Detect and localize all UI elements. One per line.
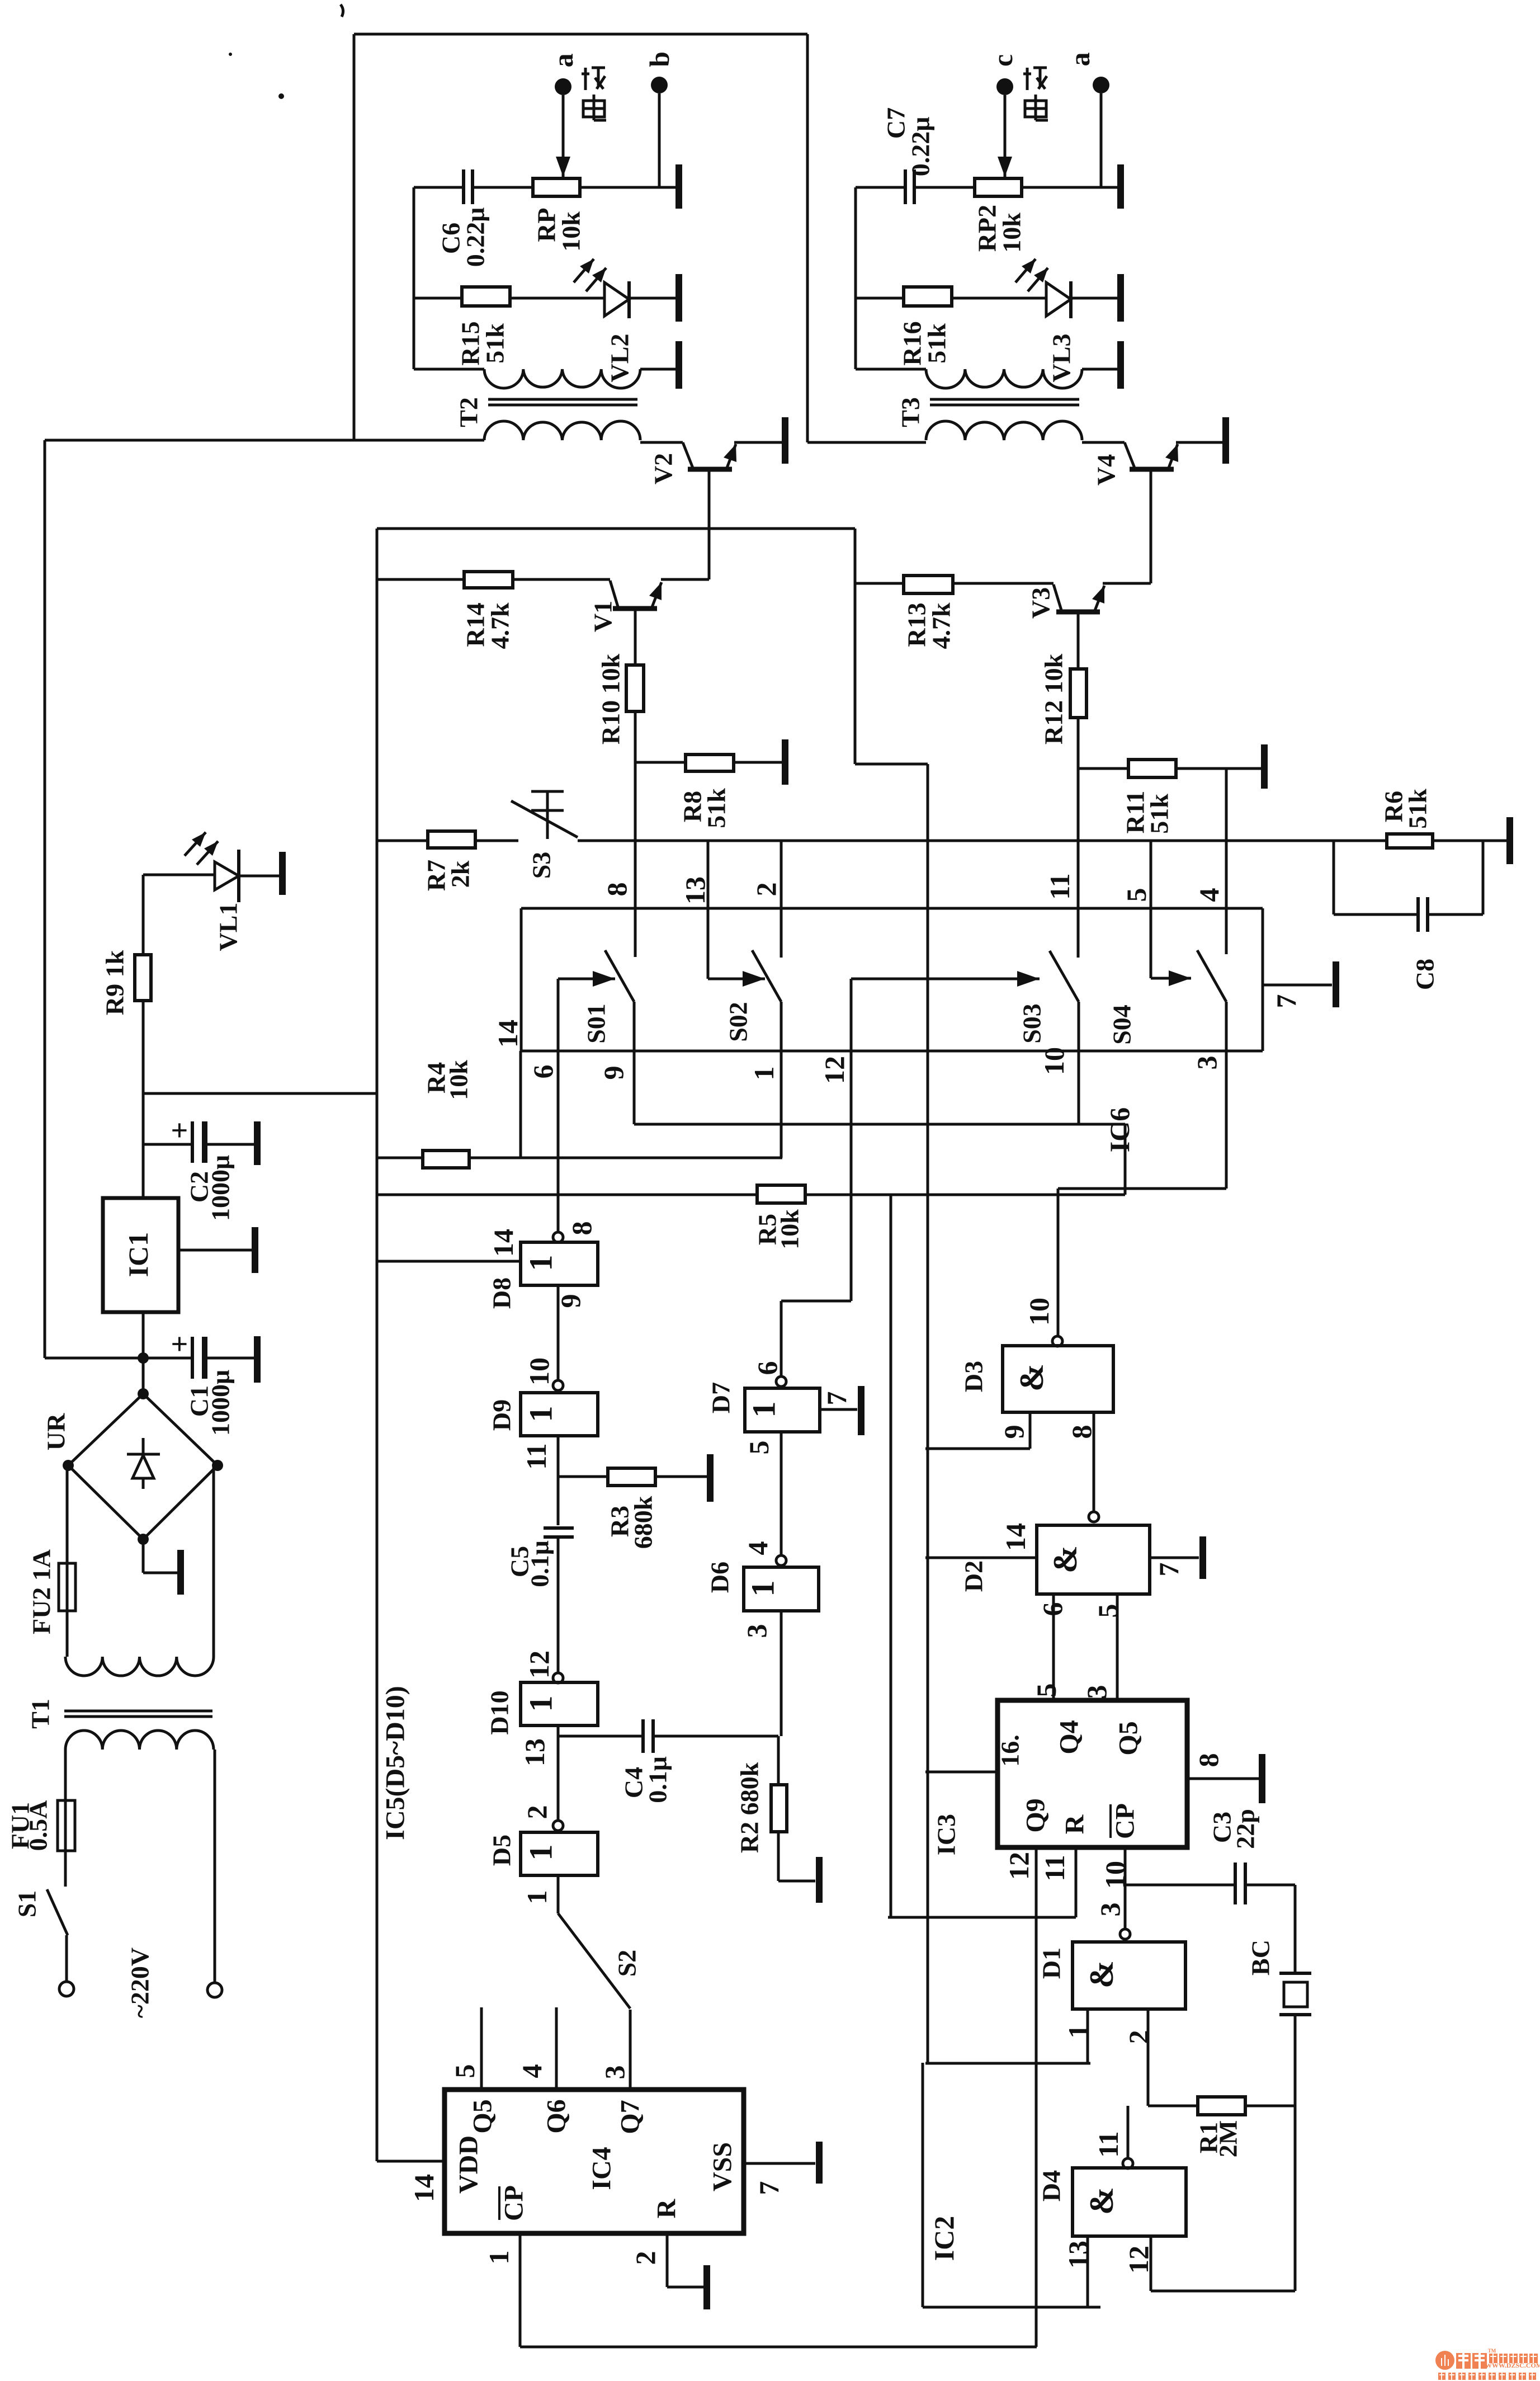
svg-text:4: 4 xyxy=(742,1541,773,1555)
svg-text:10k: 10k xyxy=(776,1209,804,1250)
svg-text:10k: 10k xyxy=(445,1060,473,1100)
svg-text:4: 4 xyxy=(516,2064,547,2078)
svg-text:5: 5 xyxy=(1092,1604,1123,1618)
svg-text:VL3: VL3 xyxy=(1047,334,1076,383)
svg-text:1: 1 xyxy=(523,1696,559,1712)
svg-text:6: 6 xyxy=(1037,1602,1068,1616)
svg-text:6: 6 xyxy=(752,1361,783,1375)
svg-text:7: 7 xyxy=(753,2181,785,2195)
svg-text:5: 5 xyxy=(1121,888,1152,902)
svg-text:Q9: Q9 xyxy=(1021,1798,1051,1832)
svg-text:VSS: VSS xyxy=(708,2142,738,2191)
svg-text:13: 13 xyxy=(1062,2241,1094,2269)
svg-text:8: 8 xyxy=(1193,1753,1224,1767)
svg-text:C8: C8 xyxy=(1411,959,1439,990)
svg-text:IC4: IC4 xyxy=(587,2147,617,2190)
svg-text:&: & xyxy=(1083,1960,1120,1988)
svg-text:11: 11 xyxy=(1039,1855,1070,1881)
svg-text:2: 2 xyxy=(1123,2030,1154,2044)
svg-text:~220V: ~220V xyxy=(126,1948,154,2018)
svg-text:&: & xyxy=(1047,1545,1084,1573)
svg-text:1: 1 xyxy=(745,1581,781,1597)
svg-text:IC5(D5~D10): IC5(D5~D10) xyxy=(381,1686,410,1840)
svg-text:2: 2 xyxy=(630,2251,661,2265)
svg-text:WWW.DZSC.COM: WWW.DZSC.COM xyxy=(1485,2361,1540,2369)
svg-text:14: 14 xyxy=(408,2174,440,2202)
svg-text:R9 1k: R9 1k xyxy=(101,950,129,1015)
svg-text:14: 14 xyxy=(488,1229,519,1257)
svg-text:13: 13 xyxy=(679,876,711,904)
svg-text:51k: 51k xyxy=(923,323,951,364)
svg-text:9: 9 xyxy=(598,1066,629,1080)
svg-text:5: 5 xyxy=(743,1441,774,1455)
svg-text:5: 5 xyxy=(1031,1684,1062,1698)
svg-text:S04: S04 xyxy=(1108,1005,1136,1045)
svg-text:R: R xyxy=(1060,1814,1090,1834)
svg-text:T3: T3 xyxy=(896,397,925,427)
svg-text:1: 1 xyxy=(523,1255,559,1271)
svg-text:3: 3 xyxy=(1081,1685,1112,1699)
svg-text:FU2 1A: FU2 1A xyxy=(27,1549,56,1634)
svg-text:D5: D5 xyxy=(488,1835,516,1866)
svg-text:IC6: IC6 xyxy=(1104,1107,1135,1153)
svg-text:10: 10 xyxy=(523,1357,555,1385)
svg-text:0.5A: 0.5A xyxy=(24,1800,53,1851)
svg-text:6: 6 xyxy=(527,1065,559,1079)
svg-text:5: 5 xyxy=(449,2064,480,2078)
svg-text:2M: 2M xyxy=(1214,2120,1243,2157)
svg-text:c: c xyxy=(987,54,1018,67)
svg-text:0.1μ: 0.1μ xyxy=(526,1540,554,1587)
svg-text:1: 1 xyxy=(748,1067,780,1081)
svg-text:Q5: Q5 xyxy=(1114,1721,1144,1755)
svg-text:V2: V2 xyxy=(649,453,678,484)
svg-text:CP: CP xyxy=(499,2185,529,2221)
svg-text:TM: TM xyxy=(1488,2348,1496,2354)
svg-text:12: 12 xyxy=(819,1056,850,1084)
svg-text:D9: D9 xyxy=(488,1399,516,1431)
svg-text:V3: V3 xyxy=(1027,587,1055,619)
svg-text:D3: D3 xyxy=(960,1361,988,1392)
svg-text:1: 1 xyxy=(1062,2025,1094,2039)
svg-text:9: 9 xyxy=(998,1425,1029,1439)
svg-text:BC: BC xyxy=(1246,1940,1275,1975)
svg-text:1: 1 xyxy=(483,2251,514,2265)
svg-text:D7: D7 xyxy=(707,1382,735,1413)
svg-text:CP: CP xyxy=(1111,1803,1140,1839)
svg-text:+: + xyxy=(163,1336,196,1353)
svg-text:T1: T1 xyxy=(26,1699,55,1729)
svg-text:14: 14 xyxy=(1000,1523,1031,1551)
svg-text:13: 13 xyxy=(519,1738,550,1766)
svg-text:4.7k: 4.7k xyxy=(486,602,514,649)
svg-text:T2: T2 xyxy=(455,397,483,427)
svg-text:0.1μ: 0.1μ xyxy=(644,1756,672,1803)
svg-text:V1: V1 xyxy=(589,601,617,632)
svg-text:VL1: VL1 xyxy=(214,903,243,951)
svg-text:V4: V4 xyxy=(1092,454,1121,485)
svg-text:VDD: VDD xyxy=(454,2135,484,2194)
svg-text:10: 10 xyxy=(1023,1298,1055,1326)
svg-text:4: 4 xyxy=(1193,888,1225,902)
svg-text:8: 8 xyxy=(566,1222,597,1236)
svg-text:14: 14 xyxy=(492,1020,523,1048)
svg-text:7: 7 xyxy=(1153,1563,1184,1577)
svg-text:D2: D2 xyxy=(960,1560,988,1592)
svg-text:1000μ: 1000μ xyxy=(206,1155,235,1221)
svg-text:R12 10k: R12 10k xyxy=(1040,653,1068,744)
svg-text:&: & xyxy=(1013,1364,1050,1392)
svg-text:11: 11 xyxy=(521,1443,552,1469)
svg-text:51k: 51k xyxy=(1145,794,1174,834)
svg-text:16.: 16. xyxy=(996,1734,1024,1767)
svg-text:8: 8 xyxy=(601,883,632,897)
svg-text:D4: D4 xyxy=(1037,2170,1066,2201)
svg-text:1000μ: 1000μ xyxy=(206,1370,235,1436)
svg-text:D8: D8 xyxy=(488,1277,516,1309)
svg-text:IC2: IC2 xyxy=(928,2216,960,2261)
svg-text:D6: D6 xyxy=(706,1562,734,1593)
svg-text:12: 12 xyxy=(1123,2246,1154,2274)
svg-text:Q6: Q6 xyxy=(542,2099,571,2133)
svg-text:12: 12 xyxy=(523,1651,555,1679)
svg-text:a: a xyxy=(1064,53,1095,67)
svg-text:1: 1 xyxy=(746,1402,782,1418)
svg-text:R2 680k: R2 680k xyxy=(735,1762,764,1853)
svg-text:0.22μ: 0.22μ xyxy=(906,117,935,177)
svg-text:12: 12 xyxy=(1003,1852,1034,1880)
svg-text:1: 1 xyxy=(523,1845,559,1861)
svg-text:+: + xyxy=(163,1122,196,1139)
svg-text:1: 1 xyxy=(521,1890,552,1904)
svg-text:S3: S3 xyxy=(527,852,556,879)
svg-text:S1: S1 xyxy=(13,1890,41,1918)
svg-text:11: 11 xyxy=(1044,873,1075,899)
svg-text:2k: 2k xyxy=(446,860,475,888)
svg-text:a: a xyxy=(547,54,579,68)
svg-text:S03: S03 xyxy=(1018,1003,1046,1044)
svg-text:D1: D1 xyxy=(1037,1948,1066,1979)
svg-text:3: 3 xyxy=(741,1624,772,1638)
svg-text:22p: 22p xyxy=(1231,1809,1260,1849)
svg-text:7: 7 xyxy=(821,1392,852,1406)
svg-text:UR: UR xyxy=(42,1413,70,1450)
svg-text:S01: S01 xyxy=(582,1003,611,1044)
svg-text:2: 2 xyxy=(750,883,782,897)
svg-text:IC1: IC1 xyxy=(122,1232,154,1277)
svg-text:10k: 10k xyxy=(557,211,585,252)
svg-text:11: 11 xyxy=(1093,2131,1124,2157)
svg-text:S02: S02 xyxy=(724,1002,753,1042)
svg-text:R: R xyxy=(652,2198,682,2218)
svg-text:R10 10k: R10 10k xyxy=(597,653,625,744)
svg-text:8: 8 xyxy=(1066,1425,1097,1439)
svg-text:51k: 51k xyxy=(702,788,731,828)
svg-text:10k: 10k xyxy=(998,213,1026,253)
svg-text:1: 1 xyxy=(523,1406,559,1422)
svg-text:3: 3 xyxy=(599,2066,630,2080)
svg-text:Q7: Q7 xyxy=(616,2100,645,2134)
svg-text:7: 7 xyxy=(1270,994,1302,1008)
svg-text:VL2: VL2 xyxy=(606,334,634,383)
svg-text:3: 3 xyxy=(1191,1056,1222,1070)
svg-text:2: 2 xyxy=(521,1805,552,1819)
svg-text:680k: 680k xyxy=(629,1496,658,1549)
svg-text:0.22μ: 0.22μ xyxy=(461,208,490,267)
svg-text:S2: S2 xyxy=(613,1950,641,1977)
svg-text:Q4: Q4 xyxy=(1055,1720,1084,1754)
svg-text:10: 10 xyxy=(1038,1047,1070,1075)
svg-text:D10: D10 xyxy=(485,1690,514,1734)
svg-text:51k: 51k xyxy=(1404,789,1432,829)
svg-text:&: & xyxy=(1083,2187,1120,2215)
svg-text:Q5: Q5 xyxy=(468,2099,498,2133)
svg-text:3: 3 xyxy=(1094,1903,1126,1917)
svg-text:b: b xyxy=(644,51,675,67)
svg-text:IC3: IC3 xyxy=(932,1814,961,1855)
svg-text:51k: 51k xyxy=(481,323,509,364)
svg-text:4.7k: 4.7k xyxy=(927,602,956,649)
